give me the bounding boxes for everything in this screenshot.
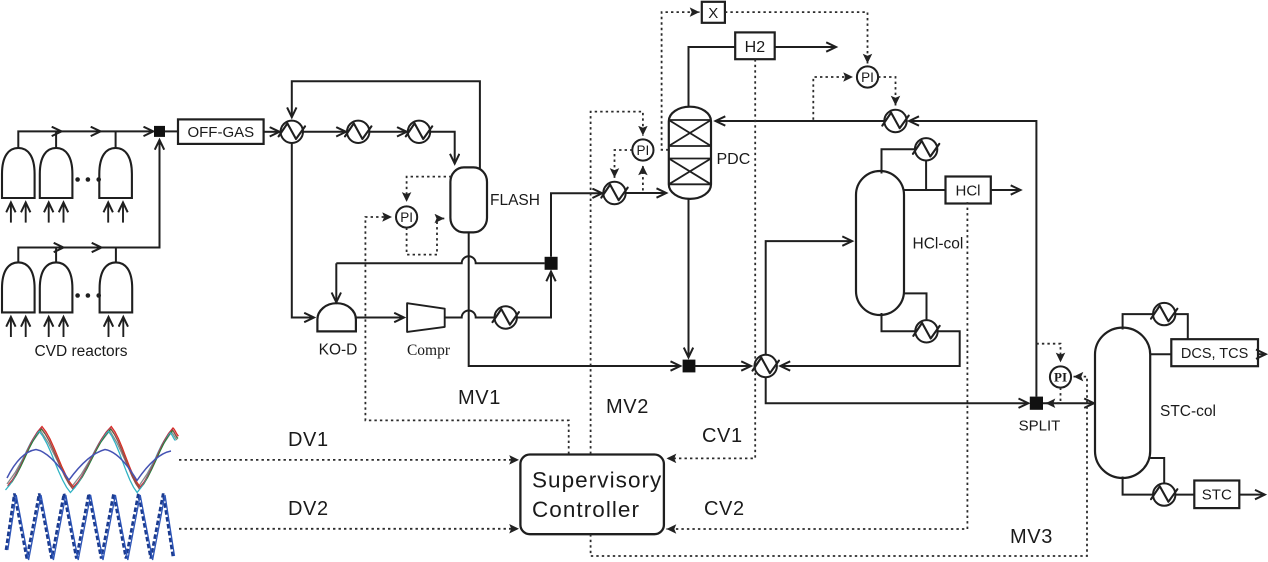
svg-text:HCl-col: HCl-col bbox=[913, 236, 964, 253]
svg-text:MV1: MV1 bbox=[458, 387, 501, 409]
svg-text:CV2: CV2 bbox=[704, 498, 745, 520]
svg-text:MV2: MV2 bbox=[606, 396, 649, 418]
svg-text:DV2: DV2 bbox=[288, 498, 329, 520]
svg-text:Supervisory: Supervisory bbox=[532, 468, 662, 493]
svg-text:Controller: Controller bbox=[532, 497, 640, 522]
svg-text:DV1: DV1 bbox=[288, 429, 329, 451]
svg-text:STC: STC bbox=[1202, 487, 1232, 504]
svg-text:OFF-GAS: OFF-GAS bbox=[187, 124, 254, 141]
svg-text:CV1: CV1 bbox=[702, 425, 743, 447]
svg-text:Compr: Compr bbox=[407, 342, 451, 359]
svg-text:KO-D: KO-D bbox=[319, 342, 358, 359]
svg-text:X: X bbox=[708, 5, 718, 22]
svg-text:MV3: MV3 bbox=[1010, 526, 1053, 548]
svg-text:CVD reactors: CVD reactors bbox=[34, 343, 127, 360]
svg-text:H2: H2 bbox=[745, 39, 766, 56]
svg-text:FLASH: FLASH bbox=[490, 192, 540, 209]
svg-text:STC-col: STC-col bbox=[1160, 403, 1216, 420]
svg-text:PDC: PDC bbox=[717, 151, 751, 168]
svg-text:SPLIT: SPLIT bbox=[1019, 418, 1061, 435]
svg-text:DCS, TCS: DCS, TCS bbox=[1181, 346, 1248, 362]
svg-text:HCl: HCl bbox=[956, 183, 981, 200]
